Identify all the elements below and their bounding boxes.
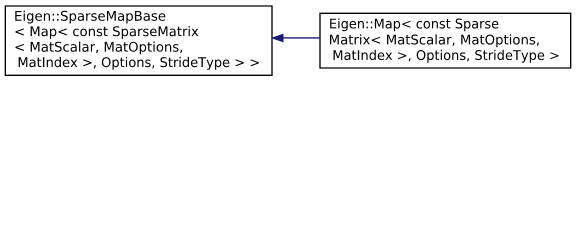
inheritance edge wire from derived to base bbox=[283, 37, 320, 39]
text line 3: MatIndex &gt;, Options, StrideType &gt; bbox=[334, 50, 559, 63]
text line 1: Eigen::Map&lt; const Sparse bbox=[330, 18, 498, 31]
text line 2: &lt; Map&lt; const SparseMatrix bbox=[15, 26, 198, 39]
text line 3: &lt; MatScalar, MatOptions, bbox=[15, 42, 182, 55]
arrowhead at base-class box bbox=[272, 34, 283, 41]
text line 2: Matrix&lt; MatScalar, MatOptions, bbox=[330, 34, 539, 47]
text line 4: MatIndex &gt;, Options, StrideType &gt; &gt; bbox=[19, 57, 259, 70]
node box Eigen::Map (derived class) bbox=[320, 13, 571, 68]
node box Eigen::SparseMapBase (base class) bbox=[5, 6, 272, 75]
text line 1: Eigen::SparseMapBase bbox=[15, 11, 165, 24]
